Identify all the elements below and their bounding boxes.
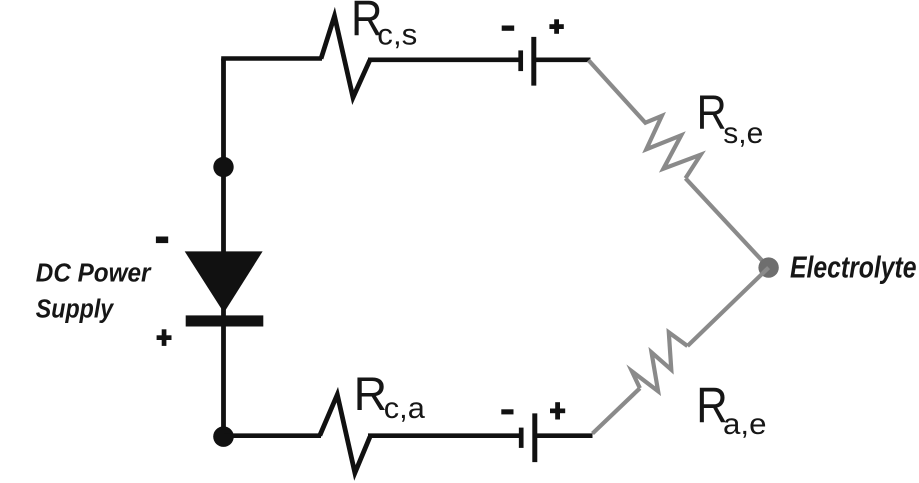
label Rc,s (351, 0, 417, 51)
wire bottom horizontal left (224, 433, 322, 438)
battery B2 plus label (550, 402, 565, 419)
battery B1 plus label (549, 19, 563, 34)
battery B1 negative plate (518, 50, 523, 71)
svg-text:c,s: c,s (377, 18, 417, 51)
wire bottom horizontal mid (368, 433, 521, 438)
resistor Rc,s (321, 16, 370, 98)
wire top horizontal right (534, 57, 591, 62)
svg-text:DC Power: DC Power (36, 259, 153, 287)
diode D1 plus label (157, 329, 172, 346)
wire gray diagonal lower-out (593, 388, 640, 433)
svg-text:R: R (354, 368, 388, 421)
label Rs,e (697, 86, 764, 150)
junction dot top (213, 157, 233, 177)
wire top horizontal left (221, 56, 322, 61)
resistor Rc,a (320, 395, 370, 473)
svg-text:c,a: c,a (384, 392, 425, 425)
wire gray diagonal upper-in (589, 60, 647, 124)
svg-text:a,e: a,e (723, 408, 767, 441)
svg-text:Electrolyte: Electrolyte (790, 250, 917, 285)
svg-text:s,e: s,e (723, 117, 763, 150)
diode D1 triangle (185, 251, 263, 312)
junction dot bottom (213, 426, 234, 447)
wire gray diagonal upper-out (686, 178, 769, 267)
battery B1 positive plate (531, 37, 536, 86)
battery B2 negative plate (519, 428, 524, 448)
diode D1 bar (186, 315, 264, 326)
node Electrolyte dot (758, 257, 778, 277)
resistor Rs,e (645, 116, 701, 178)
battery B1 minus label (502, 26, 515, 31)
wire gray diagonal lower-in (688, 268, 769, 346)
resistor Ra,e (632, 332, 688, 391)
svg-text:Supply: Supply (36, 296, 115, 324)
diode D1 minus label (156, 237, 168, 244)
battery B2 minus label (501, 409, 513, 414)
label Ra,e (696, 378, 766, 441)
wire top horizontal mid (368, 57, 521, 62)
battery B2 positive plate (532, 413, 537, 462)
wire left vertical (221, 59, 226, 438)
label Rc,a (354, 368, 426, 425)
wire bottom horizontal right (535, 433, 593, 438)
svg-text:R: R (697, 86, 727, 140)
label DC Power Supply (36, 259, 153, 323)
